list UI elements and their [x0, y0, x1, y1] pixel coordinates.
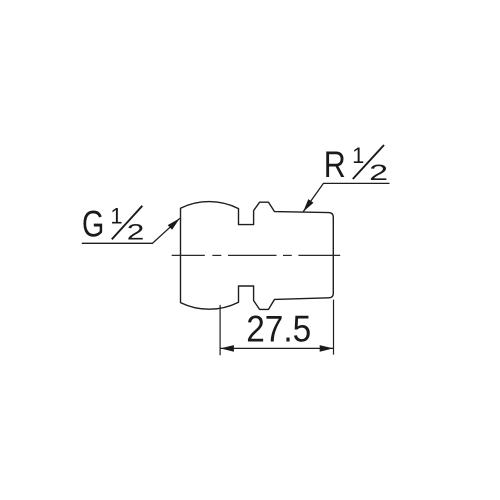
svg-text:1: 1 — [110, 203, 122, 228]
dimension arrow right — [320, 345, 334, 352]
arrowhead of G leader — [168, 218, 180, 230]
extension line left — [219, 305, 221, 355]
fraction slash — [112, 206, 143, 240]
thread label G 1/2 — [82, 203, 144, 244]
leader line G — [82, 218, 180, 243]
centerline segment 4 — [283, 254, 292, 256]
arrowhead of R leader — [303, 199, 313, 212]
centerline (dash-dot axis) — [172, 254, 341, 256]
svg-text:2: 2 — [127, 219, 145, 244]
centerline segment 3 — [228, 254, 277, 256]
svg-text:27.5: 27.5 — [246, 308, 311, 349]
fitting body outline — [181, 202, 334, 310]
svg-text:R: R — [324, 144, 346, 185]
thread label R 1/2 — [324, 143, 389, 185]
svg-text:G: G — [82, 204, 104, 245]
centerline segment 2 — [212, 254, 221, 256]
dimension line — [220, 347, 333, 349]
centerline segment 1 — [172, 254, 205, 256]
centerline segment 5 — [298, 254, 340, 256]
svg-text:2: 2 — [369, 160, 388, 185]
fraction slash — [353, 145, 384, 179]
dimension arrow left — [220, 345, 234, 352]
leader line R — [303, 183, 389, 212]
extension line right — [333, 300, 335, 355]
svg-text:1: 1 — [352, 143, 364, 168]
